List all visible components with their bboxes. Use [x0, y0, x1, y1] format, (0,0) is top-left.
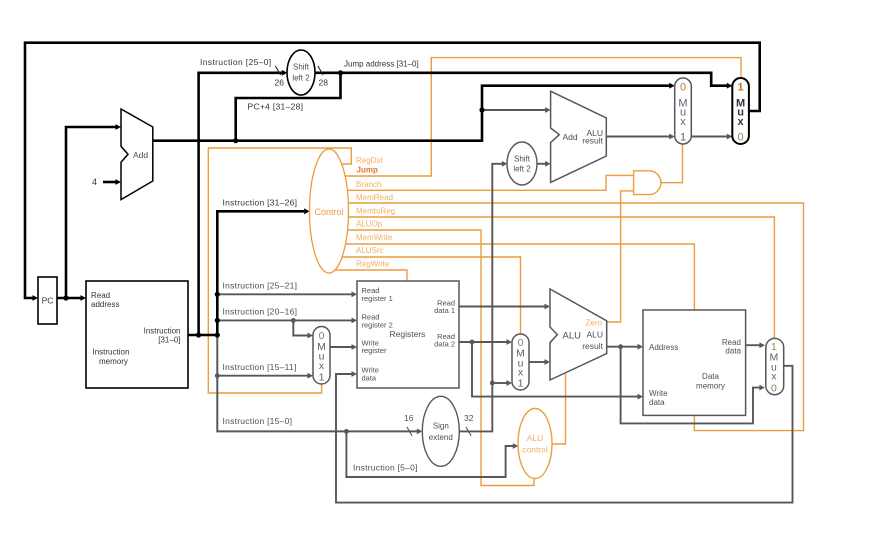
svg-text:28: 28 [319, 78, 329, 88]
svg-text:memory: memory [99, 357, 128, 366]
svg-text:4: 4 [92, 177, 97, 187]
svg-text:1: 1 [518, 378, 524, 390]
svg-text:26: 26 [275, 78, 285, 88]
svg-text:data: data [725, 347, 741, 356]
svg-text:data: data [649, 398, 665, 407]
svg-text:x: x [319, 360, 325, 372]
svg-text:result: result [582, 136, 603, 146]
svg-text:control: control [522, 445, 548, 455]
svg-text:Zero: Zero [586, 319, 603, 328]
svg-text:Jump: Jump [357, 166, 378, 175]
svg-text:ALUOp: ALUOp [356, 220, 383, 229]
svg-text:extend: extend [429, 433, 453, 442]
svg-text:Instruction [15–11]: Instruction [15–11] [223, 362, 297, 372]
svg-text:Add: Add [563, 132, 578, 142]
svg-text:32: 32 [464, 413, 474, 423]
svg-text:RegWrite: RegWrite [356, 260, 390, 269]
svg-text:Control: Control [314, 207, 343, 217]
svg-text:memory: memory [696, 382, 725, 391]
svg-text:register 2: register 2 [362, 321, 393, 330]
svg-text:Instruction: Instruction [144, 327, 181, 336]
svg-text:address: address [91, 300, 119, 309]
svg-text:0: 0 [771, 382, 777, 394]
svg-text:Data: Data [702, 372, 719, 381]
svg-text:ALU: ALU [586, 330, 603, 340]
svg-text:0: 0 [680, 82, 686, 94]
svg-text:PC: PC [42, 296, 54, 306]
svg-text:Instruction [20–16]: Instruction [20–16] [223, 307, 298, 317]
svg-text:x: x [771, 371, 777, 383]
svg-text:left 2: left 2 [513, 165, 531, 174]
svg-text:1: 1 [680, 132, 686, 144]
svg-text:ALU: ALU [527, 433, 544, 443]
svg-text:Sign: Sign [433, 422, 449, 431]
svg-text:16: 16 [404, 413, 414, 423]
svg-text:Add: Add [133, 150, 148, 160]
svg-text:register: register [362, 346, 388, 355]
svg-text:result: result [582, 341, 603, 351]
svg-text:ALUSrc: ALUSrc [356, 246, 384, 255]
svg-text:data 1: data 1 [434, 306, 455, 315]
svg-text:PC+4 [31–28]: PC+4 [31–28] [248, 102, 304, 112]
svg-text:Instruction [31–26]: Instruction [31–26] [223, 198, 298, 208]
svg-text:data 2: data 2 [434, 340, 455, 349]
svg-text:Write: Write [649, 389, 668, 398]
svg-text:MemRead: MemRead [356, 193, 393, 202]
svg-text:data: data [362, 374, 377, 383]
svg-text:Jump address [31–0]: Jump address [31–0] [344, 60, 419, 69]
svg-text:Read: Read [91, 291, 110, 300]
svg-text:Instruction [25–21]: Instruction [25–21] [223, 281, 298, 291]
svg-text:1: 1 [319, 372, 325, 384]
svg-text:0: 0 [738, 132, 744, 144]
svg-text:1: 1 [738, 82, 744, 94]
svg-text:Instruction: Instruction [93, 348, 130, 357]
svg-text:x: x [680, 116, 686, 128]
svg-text:[31–0]: [31–0] [158, 336, 180, 345]
svg-text:Instruction [15–0]: Instruction [15–0] [223, 416, 293, 426]
svg-text:Instruction [25–0]: Instruction [25–0] [200, 57, 272, 67]
svg-text:x: x [738, 116, 745, 128]
svg-text:ALU: ALU [563, 331, 582, 342]
svg-text:Shift: Shift [514, 155, 531, 164]
svg-text:MemtoReg: MemtoReg [356, 207, 395, 216]
svg-text:MemWrite: MemWrite [356, 233, 393, 242]
svg-text:Branch: Branch [356, 180, 381, 189]
svg-text:Instruction [5–0]: Instruction [5–0] [353, 463, 418, 473]
svg-text:left 2: left 2 [292, 73, 310, 82]
svg-text:RegDst: RegDst [356, 156, 383, 165]
svg-text:Registers: Registers [390, 329, 426, 339]
svg-text:register 1: register 1 [362, 294, 393, 303]
svg-text:Shift: Shift [293, 63, 310, 72]
svg-text:Address: Address [649, 343, 678, 352]
